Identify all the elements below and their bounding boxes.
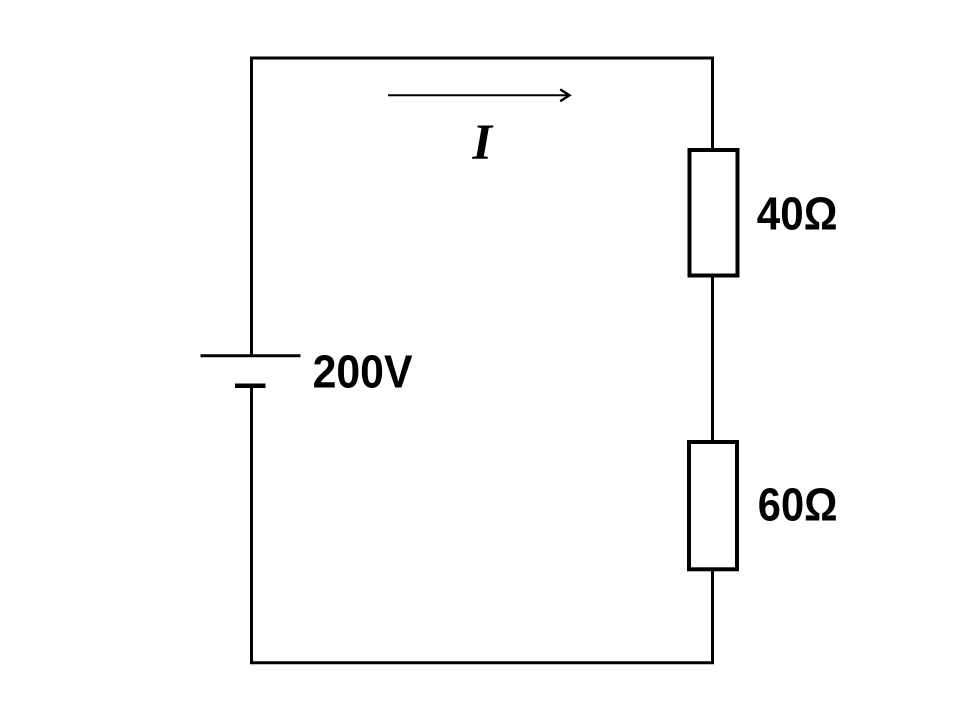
svg-text:40Ω: 40Ω (757, 188, 838, 240)
wire: right vertical upper (top corner to R1) (711, 57, 714, 151)
resistor R2 body (60 ohm box) (689, 442, 737, 569)
battery V1 short negative plate (235, 384, 266, 389)
resistor R1 body (40 ohm box) (690, 150, 738, 276)
svg-text:60Ω: 60Ω (758, 479, 838, 531)
wire: top horizontal (250, 57, 714, 60)
wire: left vertical upper (top corner to battery + plate) (250, 57, 253, 356)
svg-text:200V: 200V (313, 345, 413, 397)
wire: left vertical lower (battery - plate to bottom corner) (250, 386, 253, 664)
svg-text:I: I (471, 114, 494, 170)
wire: bottom horizontal (250, 661, 714, 664)
current arrow (388, 89, 570, 101)
wire: right vertical lower (R2 to bottom corner) (711, 569, 714, 664)
battery V1 long positive plate (201, 354, 301, 357)
wire: right vertical middle (R1 to R2) (711, 275, 714, 442)
